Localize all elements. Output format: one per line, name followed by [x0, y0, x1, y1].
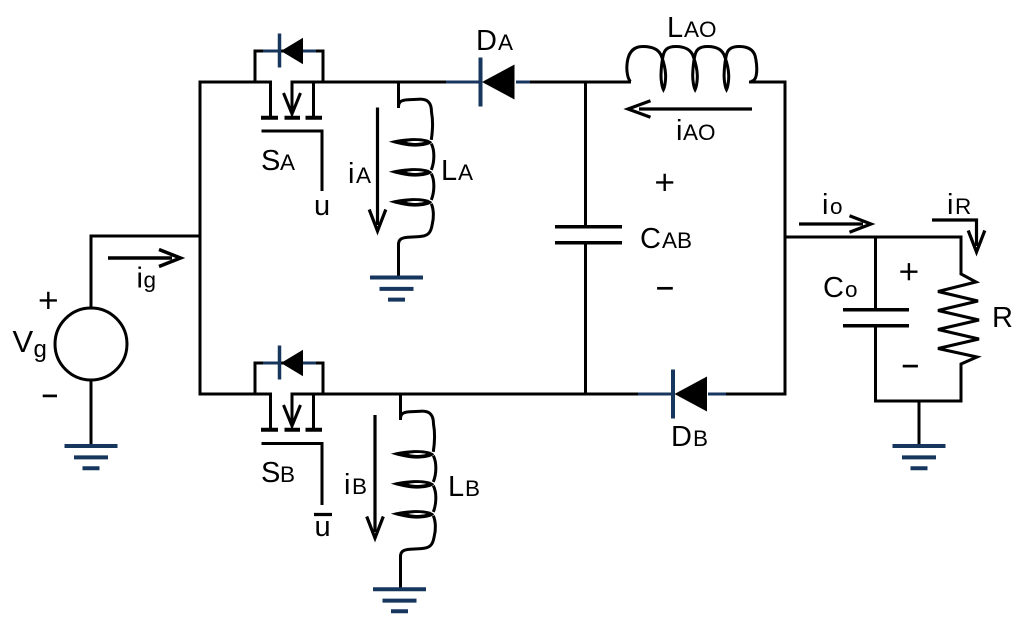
transistor SA: [261, 82, 322, 191]
svg-text:C: C: [640, 223, 661, 255]
label + (CAB): [656, 174, 673, 191]
ground (Vg): [65, 446, 118, 468]
ground (output): [893, 446, 946, 468]
ground (LB): [373, 589, 426, 611]
svg-text:B: B: [352, 474, 367, 499]
capacitor CAB: [555, 227, 622, 243]
wire right bus: [784, 81, 787, 396]
label u-bar (gate SB): [314, 511, 332, 543]
wire bottom rail left (bus to SB drain): [199, 393, 273, 396]
label - (CAB): [657, 287, 673, 290]
label SA: [261, 145, 295, 177]
svg-text:A: A: [356, 163, 371, 188]
svg-text:S: S: [261, 457, 280, 489]
svg-text:A: A: [280, 150, 295, 175]
transistor SB: [261, 394, 322, 505]
svg-text:i: i: [947, 189, 953, 221]
svg-text:A: A: [458, 160, 473, 185]
svg-text:o: o: [830, 194, 843, 219]
wire top rail mid (SA source to DA anode lead): [291, 81, 447, 84]
body diode SB: [254, 346, 325, 396]
svg-text:D: D: [476, 25, 497, 57]
label Vg: [13, 324, 47, 363]
current arrow iR: [932, 220, 985, 252]
body diode SA: [254, 34, 325, 84]
current arrow iAO: [628, 101, 752, 118]
svg-text:i: i: [676, 115, 682, 147]
label - (Vg): [43, 395, 57, 398]
svg-text:V: V: [13, 324, 34, 359]
svg-text:AO: AO: [683, 120, 716, 145]
svg-text:B: B: [280, 462, 295, 487]
svg-text:i: i: [137, 263, 143, 295]
svg-text:R: R: [992, 302, 1013, 334]
wire output top (right bus to resistor R): [785, 236, 963, 239]
label - (Co): [903, 365, 918, 368]
label LB: [448, 471, 480, 503]
svg-text:i: i: [822, 189, 828, 221]
diode DA: [446, 58, 530, 107]
wire CAB top stub: [584, 81, 587, 227]
svg-text:B: B: [693, 426, 708, 451]
current arrow iA: [369, 108, 386, 232]
label + (Vg): [40, 292, 57, 309]
wire left bus: [199, 81, 202, 396]
ground (LA): [370, 278, 423, 300]
current arrow io: [799, 216, 871, 233]
label DA: [476, 25, 513, 57]
wire Vg top to bus: [90, 235, 201, 309]
current arrow ig: [108, 250, 181, 267]
label iB: [344, 469, 367, 501]
voltage source Vg: [55, 308, 127, 380]
label DB: [671, 421, 708, 453]
svg-text:B: B: [465, 476, 480, 501]
svg-text:o: o: [845, 277, 858, 302]
svg-text:R: R: [955, 194, 971, 219]
svg-text:AB: AB: [662, 228, 692, 253]
inductor LAO: [627, 47, 757, 90]
svg-text:L: L: [448, 471, 464, 503]
label LAO: [667, 12, 717, 44]
current arrow iB: [367, 415, 384, 538]
label + (Co): [900, 263, 917, 280]
wire output ground stem: [918, 401, 921, 444]
svg-text:C: C: [823, 272, 844, 304]
label iR: [947, 189, 971, 221]
diode DB: [638, 370, 726, 419]
svg-text:g: g: [144, 268, 157, 293]
svg-text:L: L: [441, 155, 457, 187]
svg-text:i: i: [344, 469, 350, 501]
resistor R: [938, 236, 979, 403]
wire top rail left (bus corner to SA drain): [199, 81, 273, 84]
svg-text:u: u: [314, 190, 330, 222]
wire Co bottom stub: [874, 326, 877, 403]
label Co: [823, 272, 858, 304]
inductor LA: [389, 81, 434, 276]
svg-text:S: S: [261, 145, 280, 177]
wire Co top stub: [874, 236, 877, 310]
wire bottom rail mid (SB source to DB lead): [291, 393, 639, 396]
capacitor Co: [843, 310, 909, 326]
label R: [992, 302, 1013, 334]
label u (gate SA): [314, 190, 330, 222]
wire output bottom: [874, 400, 963, 403]
wire CAB bottom stub: [584, 243, 587, 396]
svg-text:g: g: [34, 336, 47, 363]
wire top rail far right (LAO right end to right bus): [749, 81, 787, 84]
svg-text:L: L: [667, 12, 683, 44]
label CAB: [640, 223, 692, 255]
svg-text:i: i: [348, 158, 354, 190]
label iA: [348, 158, 371, 190]
label LA: [441, 155, 473, 187]
label iAO: [676, 115, 716, 147]
svg-text:A: A: [498, 30, 513, 55]
label io: [822, 189, 843, 221]
label ig: [137, 263, 157, 295]
svg-text:AO: AO: [684, 17, 717, 42]
svg-text:D: D: [671, 421, 692, 453]
wire bottom rail right (DB to right bus): [725, 393, 787, 396]
wire Vg bottom to ground: [90, 380, 93, 444]
wire top rail right (DA cathode to LAO left end): [529, 81, 631, 84]
inductor LB: [391, 393, 436, 588]
label SB: [261, 457, 295, 489]
